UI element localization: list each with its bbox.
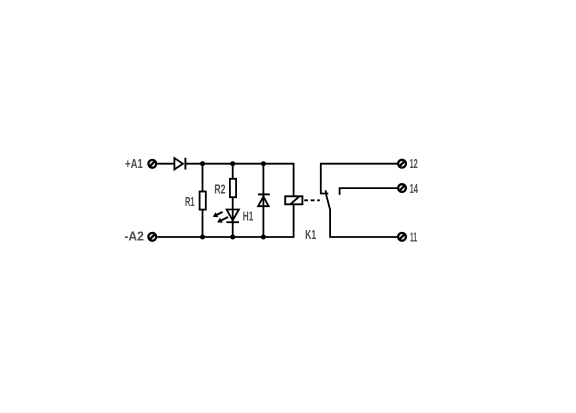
svg-text:K1: K1: [305, 228, 316, 242]
relay coil K1: [285, 196, 302, 204]
svg-text:11: 11: [410, 230, 417, 244]
node junction top R2: [230, 161, 235, 166]
svg-text:H1: H1: [243, 209, 254, 223]
wire branch R2/H1: [232, 164, 234, 237]
diode V2 freewheel: [258, 194, 270, 206]
dashed actuator link: [304, 199, 320, 201]
terminal -A2: [148, 233, 156, 241]
terminal 11: [398, 233, 406, 241]
svg-text:14: 14: [410, 182, 418, 196]
wire NO hook to terminal 14: [340, 188, 398, 195]
terminal 14: [398, 184, 406, 192]
diode V1: [174, 158, 185, 170]
terminal +A1: [148, 160, 156, 168]
LED H1: [226, 210, 239, 223]
node junction bottom V2: [261, 235, 266, 240]
node junction bottom R1: [200, 235, 205, 240]
wire branch R1: [202, 164, 204, 237]
wire NC contact to terminal 12: [321, 164, 397, 194]
svg-text:+A1: +A1: [125, 157, 143, 171]
wire top rail into coil branch: [185, 164, 293, 197]
resistor R2: [230, 179, 236, 197]
node junction top R1: [200, 161, 205, 166]
wire +A1 to diode: [157, 163, 173, 165]
svg-text:-A2: -A2: [124, 229, 143, 243]
contact moving arm: [326, 190, 398, 237]
node junction bottom R2: [230, 235, 235, 240]
svg-text:R1: R1: [185, 195, 195, 209]
LED H1 arrows: [213, 212, 228, 223]
wire branch V2: [262, 164, 264, 237]
resistor R1: [200, 192, 206, 210]
wire coil to bottom rail: [157, 205, 293, 238]
svg-text:12: 12: [410, 157, 418, 171]
terminal 12: [398, 160, 406, 168]
node junction top V2: [261, 161, 266, 166]
svg-text:R2: R2: [214, 182, 225, 196]
